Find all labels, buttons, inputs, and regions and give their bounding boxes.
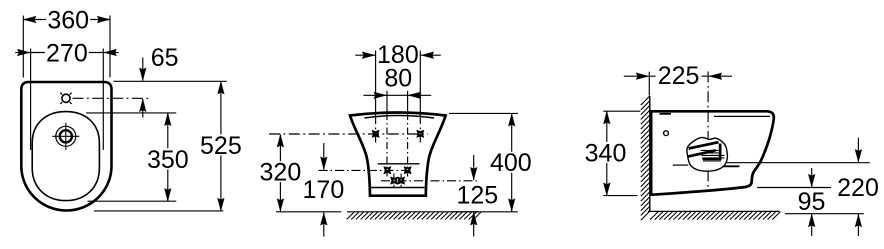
wall line — [649, 96, 651, 211]
bidet front-view outline — [350, 113, 446, 196]
svg-text:270: 270 — [46, 39, 88, 67]
svg-text:350: 350 — [147, 146, 189, 174]
rim detail — [660, 113, 672, 115]
dim 80 — [387, 94, 408, 96]
dimension base line — [785, 213, 864, 215]
wall hatching — [641, 96, 650, 220]
dim 225 — [648, 72, 650, 96]
svg-text:125: 125 — [456, 181, 498, 209]
svg-text:225: 225 — [658, 62, 700, 90]
dim 525 — [220, 81, 222, 211]
bowl bottom extension — [88, 200, 177, 202]
svg-text:65: 65 — [151, 44, 179, 72]
svg-text:80: 80 — [384, 64, 412, 92]
inner base line — [371, 187, 425, 189]
bowl edge dash — [722, 165, 740, 167]
svg-text:320: 320 — [260, 159, 302, 187]
fixing holes front — [372, 130, 379, 137]
dim 340 — [603, 110, 640, 112]
ground line left — [276, 211, 341, 213]
dim 180 — [355, 54, 375, 56]
dim 170 — [323, 143, 325, 170]
95 reference line — [757, 187, 831, 189]
dim 270 — [30, 49, 32, 151]
dim 360 — [22, 16, 24, 78]
centerline drain level — [381, 180, 478, 182]
spray nozzle target — [56, 126, 76, 146]
bidet side profile — [650, 111, 774, 195]
tap fixing hole — [62, 94, 70, 102]
dim 65 — [142, 58, 144, 81]
dim 125 — [473, 155, 475, 180]
bidet rear edge at wall — [650, 112, 652, 194]
centerline 320 level — [269, 133, 428, 135]
dim 350 — [167, 113, 169, 201]
centerline 170 level — [319, 169, 414, 171]
ground line right — [453, 211, 518, 213]
svg-text:400: 400 — [490, 149, 532, 177]
bottom extension — [94, 210, 223, 212]
hole centerline verticals — [375, 51, 377, 114]
bidet top-view outline — [21, 82, 111, 211]
side fixing hole — [664, 131, 669, 136]
svg-text:220: 220 — [837, 174, 879, 202]
svg-text:170: 170 — [303, 176, 345, 204]
floor line — [648, 210, 780, 212]
dim 400 — [511, 113, 513, 211]
bowl top extension — [86, 112, 176, 114]
top edge extension right — [449, 112, 518, 114]
dim 320 — [279, 134, 281, 211]
dim 95 — [811, 168, 813, 187]
tap centerline vertical — [707, 72, 709, 190]
svg-text:360: 360 — [47, 6, 89, 34]
220 reference line — [720, 162, 870, 164]
water level left segment — [673, 164, 689, 166]
bowl inner rim — [32, 112, 99, 201]
inner mid line — [378, 163, 420, 165]
top edge extension — [114, 80, 227, 82]
inner rim line — [365, 116, 435, 119]
centerline through tap hole — [73, 97, 149, 99]
bidet tap side view — [687, 137, 728, 171]
rim inner line — [714, 115, 770, 117]
dim 220 — [857, 138, 859, 163]
svg-text:340: 340 — [585, 139, 627, 167]
svg-text:95: 95 — [798, 188, 826, 216]
floor hatching — [650, 212, 780, 220]
svg-text:525: 525 — [200, 132, 242, 160]
ground hatched under bidet — [347, 211, 479, 213]
